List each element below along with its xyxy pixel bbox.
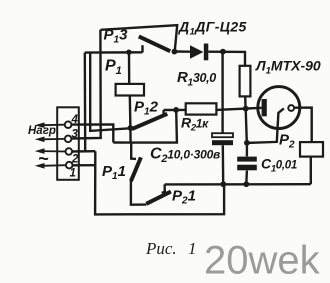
switch P2.1 blade [146, 192, 171, 204]
tube L1 envelope [258, 87, 300, 129]
wire left column V1 to pin2 level [84, 53, 87, 152]
wire mid horizontal y142 [113, 110, 177, 142]
relay P2 coil [300, 142, 323, 157]
junction dot node R2 left [173, 107, 179, 113]
switch P1.2 blade [132, 114, 168, 129]
wire C1 bottom to bus [245, 171, 248, 185]
junction dot node coil-top [126, 50, 131, 55]
junction dot node bus C1 [243, 181, 249, 187]
wire pin1 horizontal [72, 164, 95, 167]
svg-text:~: ~ [38, 149, 49, 169]
wire top bus to switch P1.3 pivot [101, 25, 178, 51]
switch P1.1 blade [131, 157, 141, 181]
wire V2 column to relay node [90, 53, 129, 131]
junction dot node starter [244, 140, 250, 146]
junction dot node bus C2 [220, 181, 226, 187]
wire x95 drop to bottom rail [95, 151, 224, 214]
wire R1 bottom leg [244, 96, 247, 108]
junction dot node cathode [243, 106, 249, 112]
svg-text:1: 1 [70, 168, 76, 180]
wire bottom bus [165, 183, 311, 186]
wire relay P2 bottom leg [310, 157, 312, 185]
wire starter node to C1 top [246, 143, 248, 157]
wire R2 left segment [164, 109, 186, 111]
wire C2 bottom leg [222, 145, 225, 184]
wire starter electrode lead [247, 108, 284, 142]
resistor R1 [240, 66, 251, 97]
capacitor C1 bottom plate [237, 165, 257, 171]
arrow pin1 lead [35, 163, 66, 169]
svg-text:Нагр.: Нагр. [28, 125, 59, 137]
connector pin 2 circle [66, 148, 73, 155]
connector pin 3 circle [65, 136, 72, 143]
svg-text:2: 2 [71, 153, 79, 165]
wire diode anode segment [175, 50, 190, 53]
arrow pin4 lead [35, 122, 65, 128]
svg-text:Рис.1: Рис.1 [145, 239, 197, 258]
capacitor C2 minus plate [212, 140, 233, 145]
wire pin3 riser to top-left corner [72, 30, 101, 139]
relay P1 coil [116, 84, 144, 96]
junction dot node P1.3 pivot [172, 49, 178, 55]
wire P1.1 pivot leg to P2.1 pivot [131, 181, 146, 205]
wire anode to relay P2 [295, 108, 312, 142]
wire C2 top leg [221, 52, 223, 133]
wire pin2 horizontal [72, 150, 96, 153]
junction dot node A coil-bottom [127, 125, 133, 131]
wire relay P1 coil top leg [128, 52, 131, 84]
wire cathode node to starter node [246, 109, 247, 143]
connector X1 body [57, 107, 79, 180]
junction dot node diode out [220, 49, 226, 55]
capacitor C1 top plate [237, 157, 257, 162]
svg-text:3: 3 [72, 128, 79, 140]
arrow pin3 lead [35, 137, 65, 143]
wire node A drop [129, 128, 132, 143]
wire relay P1 coil bottom leg [129, 96, 132, 128]
arrow pin2 lead [35, 148, 66, 154]
svg-text:20wek: 20wek [204, 239, 321, 283]
wire P1.3 fixed-contact horizontal [85, 51, 143, 54]
wire P1.2 fixed-contact stub [162, 110, 164, 115]
wire P2.1 fixed-contact stub [162, 184, 165, 193]
connector pin 1 circle [66, 162, 73, 169]
wire cathode horizontal [217, 108, 262, 110]
wire P1.3 fixed-contact stub [141, 45, 143, 52]
resistor R2 [186, 103, 217, 114]
switch P1.3 blade [139, 36, 170, 51]
diode D1 [190, 44, 208, 61]
svg-text:4: 4 [71, 114, 79, 126]
wire pin4 horizontal and drop [72, 124, 114, 142]
capacitor C2 plus plate [212, 133, 233, 137]
tube L1 cathode bar [262, 99, 267, 116]
tube L1 anode ring [288, 105, 294, 111]
wire diode cathode to R1 top [208, 52, 245, 66]
wire P1.1 fixed-contact stub [131, 143, 136, 159]
connector pin 4 circle [65, 121, 72, 128]
